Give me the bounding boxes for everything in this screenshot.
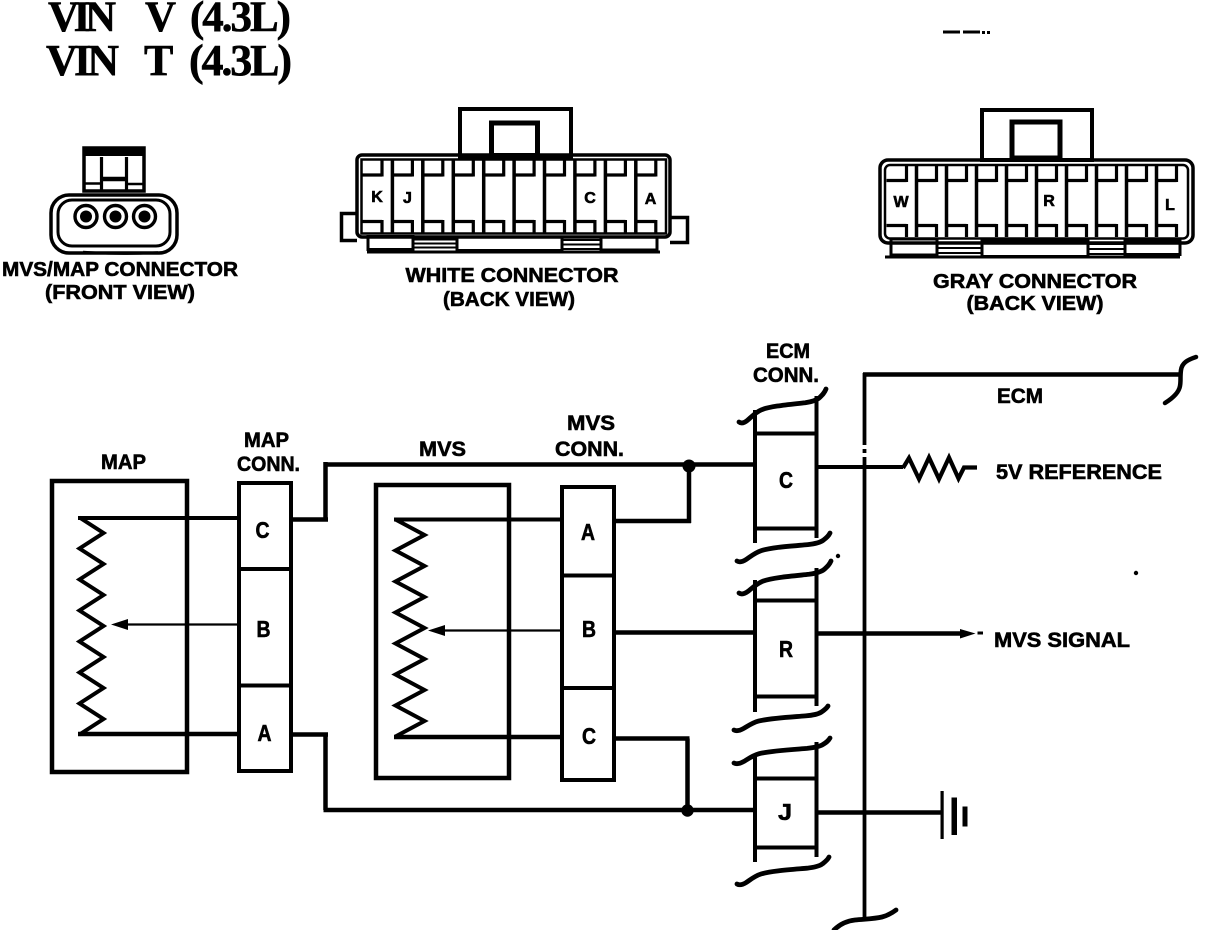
- wire 5V reference: [819, 465, 904, 469]
- label WHITE CONNECTOR (BACK VIEW): [406, 264, 619, 311]
- wire MVS pin A to connector: [394, 518, 563, 522]
- wire MVS pin C to connector: [394, 735, 563, 740]
- ground symbol: [941, 791, 968, 839]
- svg-text:A: A: [581, 519, 595, 545]
- MVS connector strip: [562, 487, 614, 780]
- wire MAP A exit to ground bus: [291, 733, 328, 811]
- svg-text:B: B: [257, 616, 271, 642]
- pin B label MAP conn: [257, 616, 271, 642]
- pin C label white connector: [584, 190, 596, 207]
- junction node ground: [681, 804, 693, 816]
- MAP connector strip: [239, 483, 291, 771]
- svg-text:J: J: [403, 190, 412, 207]
- pin L label gray connector: [1165, 197, 1175, 214]
- svg-text:A: A: [258, 720, 272, 746]
- break mark below ECM pin J: [737, 857, 829, 885]
- ECM boundary top line: [863, 372, 1180, 377]
- label 5V REFERENCE: [996, 461, 1162, 484]
- svg-text:CONN.: CONN.: [555, 438, 624, 461]
- label MAP CONN.: [237, 429, 300, 476]
- ECM column with pin boxes: [753, 396, 819, 862]
- svg-text:R: R: [779, 636, 793, 662]
- label MVS: [419, 438, 466, 461]
- pin A label MAP conn: [258, 720, 272, 746]
- svg-text:MVS SIGNAL: MVS SIGNAL: [994, 629, 1130, 652]
- arrow MVS signal: [960, 629, 983, 639]
- wire MVS C exit to ground junction: [614, 739, 690, 811]
- svg-text:W: W: [893, 194, 909, 211]
- svg-text:R: R: [1043, 193, 1055, 210]
- svg-text:5V REFERENCE: 5V REFERENCE: [996, 461, 1162, 484]
- svg-text:MAP: MAP: [244, 429, 289, 452]
- wire 5V bus horizontal: [324, 462, 754, 467]
- svg-text:ECM: ECM: [997, 385, 1043, 408]
- pin R label gray connector: [1043, 193, 1055, 210]
- label MVS CONN.: [555, 412, 624, 461]
- svg-text:WHITE CONNECTOR: WHITE CONNECTOR: [406, 264, 619, 287]
- wiper arrow MVS pin B: [428, 625, 563, 636]
- ECM boundary bottom break: [834, 910, 896, 930]
- break mark below ECM pin C (upper): [737, 533, 830, 562]
- svg-text:(BACK VIEW): (BACK VIEW): [443, 288, 575, 311]
- speck dot right margin: [1134, 571, 1138, 575]
- svg-text:MVS: MVS: [419, 438, 466, 461]
- wire MAP pin C to connector: [78, 516, 240, 520]
- svg-text:CONN.: CONN.: [753, 364, 819, 387]
- wire MVS signal: [819, 631, 962, 636]
- svg-text:C: C: [584, 190, 596, 207]
- MVS sensor box: [376, 485, 509, 778]
- pin A label white connector: [645, 191, 657, 208]
- title line VIN T (4.3L): [46, 36, 292, 85]
- speck dot near ECM column: [836, 554, 840, 558]
- MAP sensor resistor zigzag: [80, 518, 104, 735]
- svg-text:MVS: MVS: [567, 412, 615, 435]
- svg-text:J: J: [778, 799, 792, 825]
- svg-text:VINT(4.3L): VINT(4.3L): [46, 36, 292, 85]
- junction node 5V: [683, 460, 696, 473]
- svg-text:L: L: [1165, 197, 1175, 214]
- pin A label MVS conn: [581, 519, 595, 545]
- wire MVS A exit to 5V junction: [614, 464, 691, 523]
- wire MAP C exit to 5V bus: [291, 462, 328, 522]
- ECM boundary hook: [1165, 357, 1196, 403]
- break mark below ECM pin C (lower): [739, 561, 831, 594]
- svg-text:(FRONT VIEW): (FRONT VIEW): [45, 281, 195, 304]
- MVS sensor resistor zigzag: [396, 520, 425, 737]
- resistor 5V reference: [903, 458, 977, 480]
- svg-text:ECM: ECM: [766, 340, 810, 363]
- svg-text:(BACK VIEW): (BACK VIEW): [967, 292, 1104, 315]
- wire MVS B to ECM R: [614, 630, 754, 635]
- pin B label MVS conn: [582, 616, 596, 642]
- white connector back view: [342, 109, 688, 252]
- label MVS SIGNAL: [994, 629, 1130, 652]
- break mark below ECM pin R (upper): [734, 706, 828, 731]
- MVS/MAP connector front view: [51, 148, 177, 254]
- label ECM CONN.: [753, 340, 819, 387]
- pin C label MAP conn: [256, 517, 270, 543]
- break mark above ECM pin C: [739, 389, 826, 423]
- label GRAY CONNECTOR (BACK VIEW): [933, 270, 1137, 315]
- svg-text:C: C: [256, 517, 270, 543]
- dashed mark top right: [943, 31, 990, 35]
- pin J label ECM: [778, 799, 792, 825]
- svg-text:K: K: [371, 189, 383, 206]
- break mark below ECM pin R (lower): [734, 738, 830, 764]
- svg-text:GRAY CONNECTOR: GRAY CONNECTOR: [933, 270, 1137, 293]
- pin C label ECM: [779, 467, 793, 493]
- svg-text:C: C: [582, 723, 596, 749]
- title line VIN V (4.3L): [48, 0, 291, 41]
- gray connector back view: [880, 110, 1193, 257]
- pin C label MVS conn: [582, 723, 596, 749]
- svg-text:A: A: [645, 191, 657, 208]
- label MAP: [101, 451, 146, 474]
- pin W label gray connector: [893, 194, 909, 211]
- svg-text:CONN.: CONN.: [237, 453, 300, 476]
- svg-text:MVS/MAP CONNECTOR: MVS/MAP CONNECTOR: [2, 258, 238, 281]
- svg-text:MAP: MAP: [101, 451, 146, 474]
- ECM boundary vertical line: [861, 373, 868, 919]
- wire ground bus horizontal: [324, 808, 754, 813]
- svg-text:C: C: [779, 467, 793, 493]
- pin J label white connector: [403, 190, 412, 207]
- svg-text:VINV(4.3L): VINV(4.3L): [48, 0, 291, 41]
- label MVS/MAP CONNECTOR (FRONT VIEW): [2, 258, 238, 304]
- wire MAP pin A to connector: [78, 732, 240, 737]
- pin K label white connector: [371, 189, 383, 206]
- label ECM: [997, 385, 1043, 408]
- MAP sensor box: [52, 481, 187, 772]
- svg-text:B: B: [582, 616, 596, 642]
- wire sensor ground to ECM J: [819, 810, 942, 815]
- wiper arrow MAP pin B: [111, 619, 240, 630]
- pin R label ECM: [779, 636, 793, 662]
